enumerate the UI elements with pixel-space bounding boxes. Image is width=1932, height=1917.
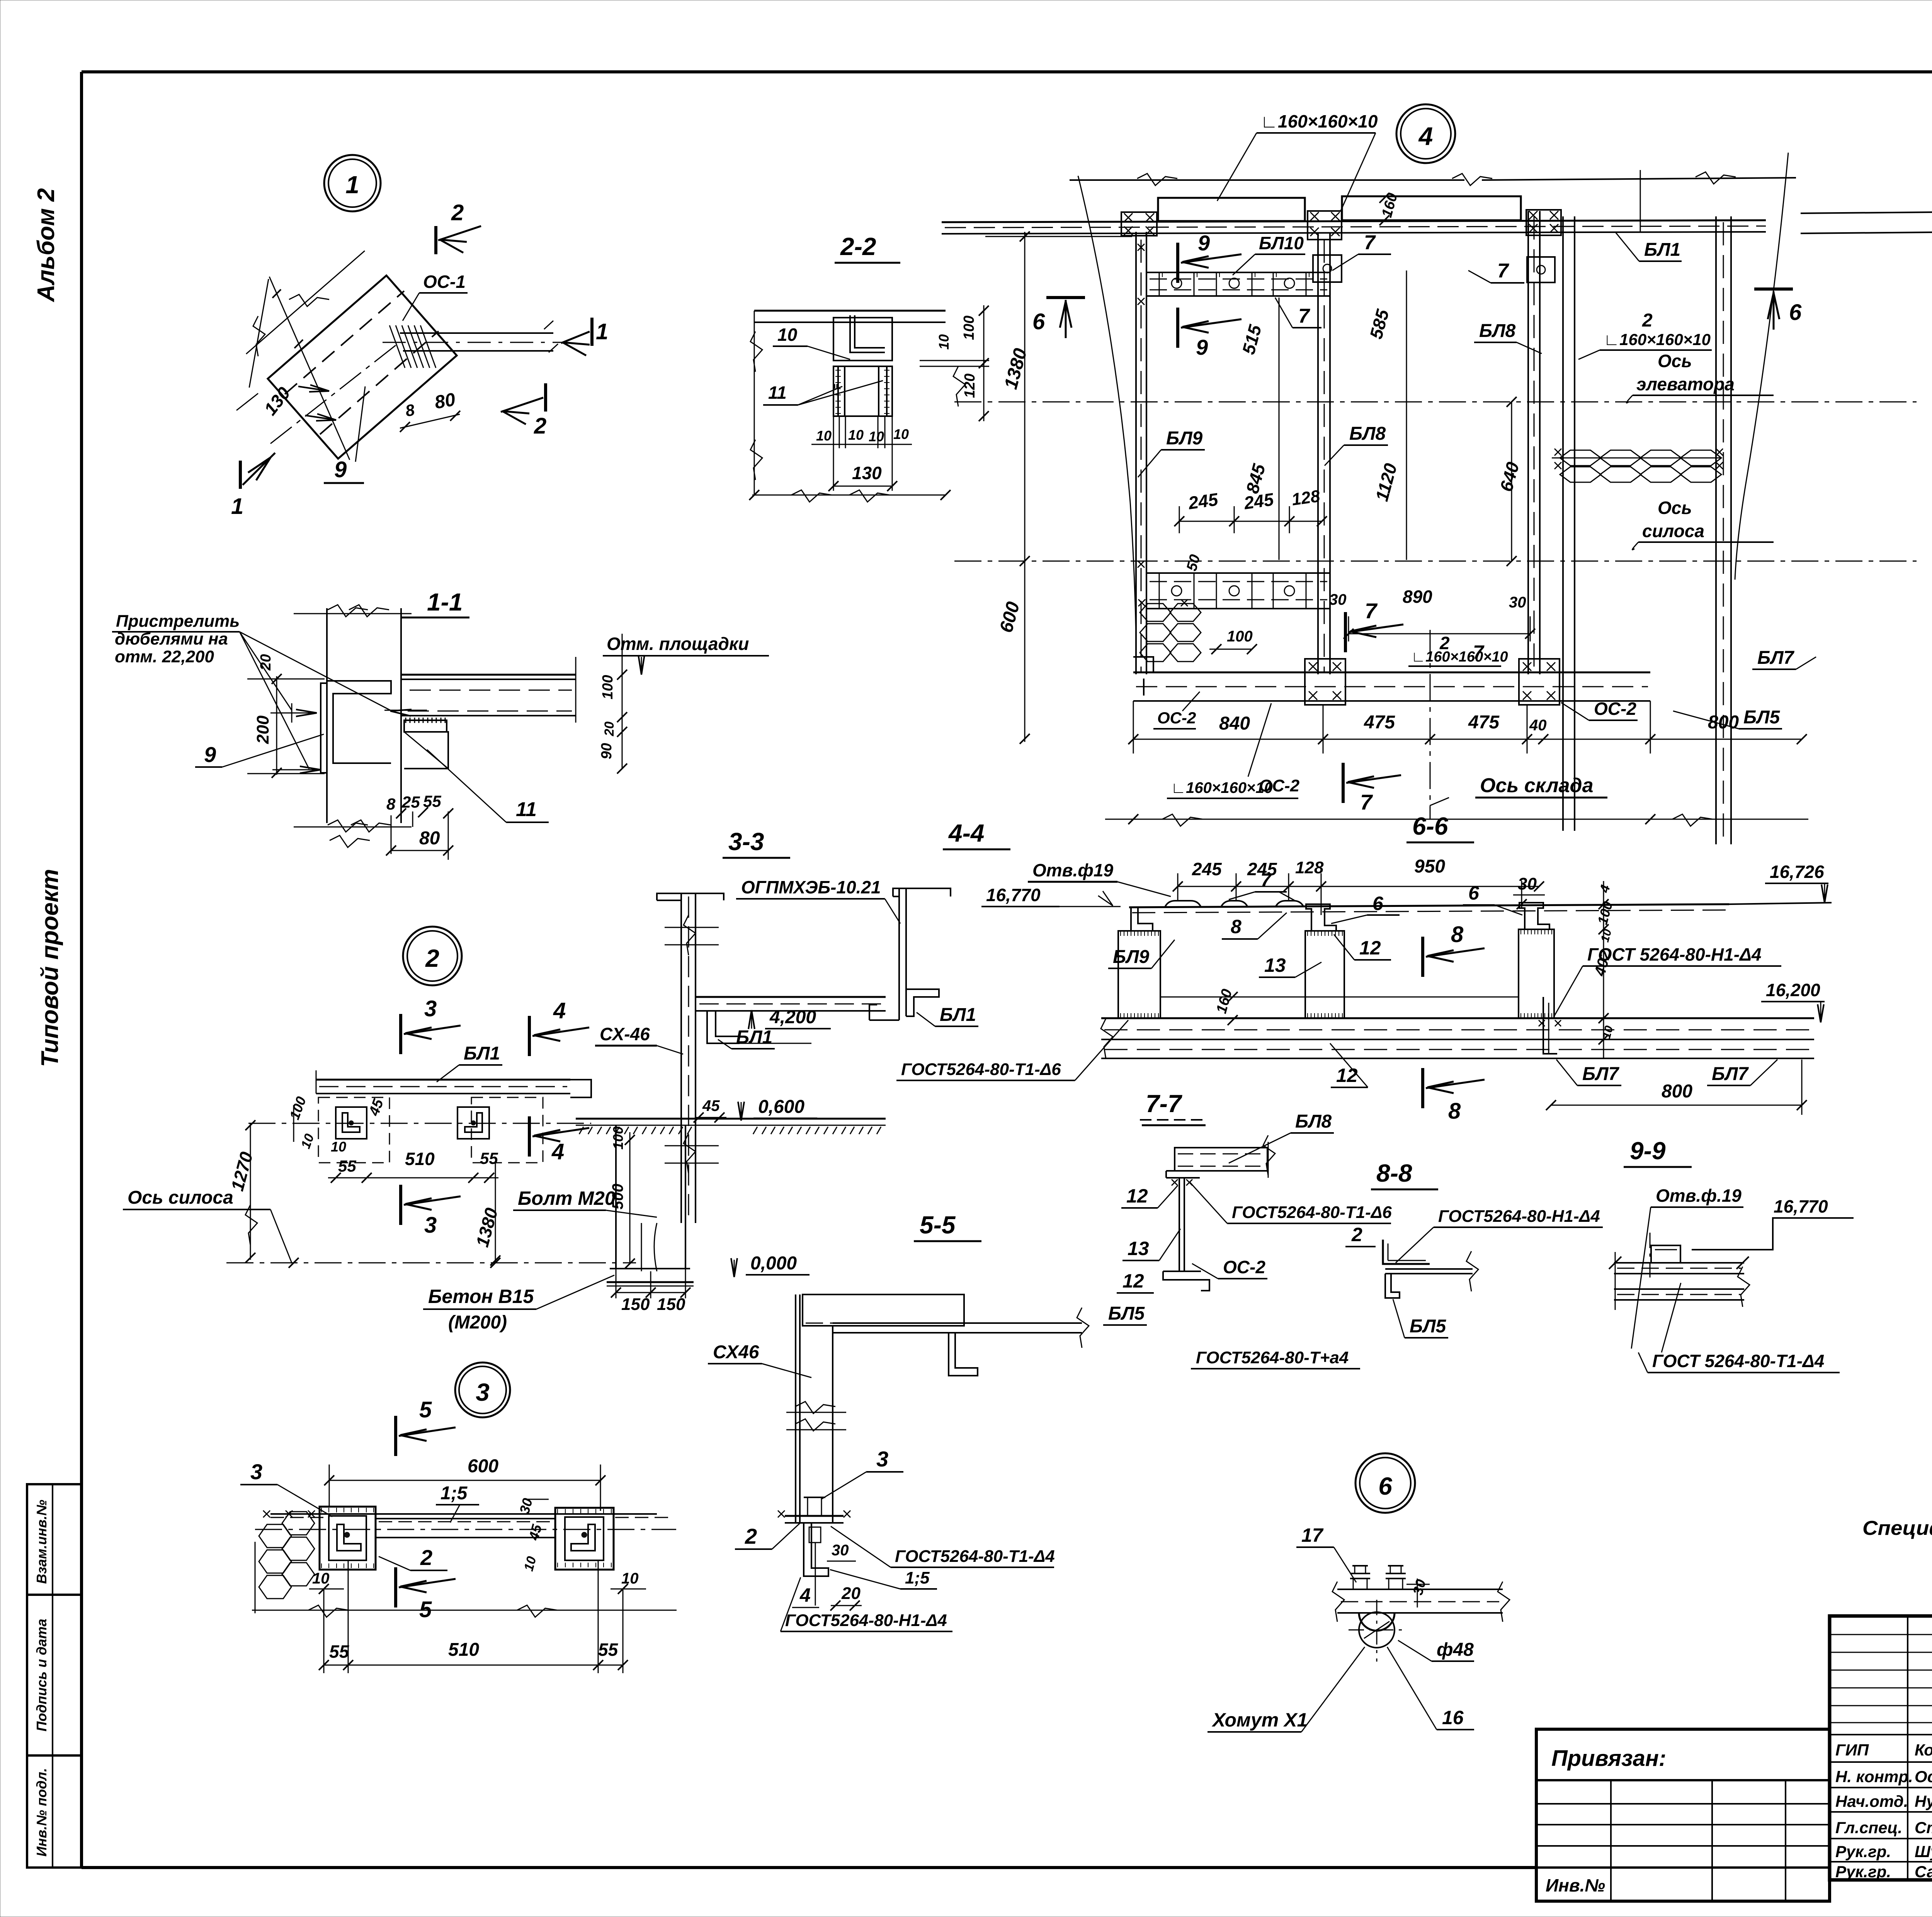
svg-text:150: 150 — [621, 1295, 650, 1314]
svg-text:Спецификацию на БЛ1...БЛ12,О: Спецификацию на БЛ1...БЛ12,ОС-1,ОС-2,Р4,… — [1862, 1517, 1932, 1539]
detail 4 weld boxes top — [1121, 212, 1157, 236]
svg-text:3: 3 — [424, 996, 437, 1021]
svg-text:45: 45 — [702, 1097, 720, 1114]
svg-text:Рук.гр.: Рук.гр. — [1835, 1842, 1891, 1861]
svg-text:БЛ9: БЛ9 — [1166, 428, 1203, 449]
svg-text:100: 100 — [1227, 628, 1253, 645]
svg-text:9: 9 — [334, 457, 347, 482]
svg-text:10: 10 — [621, 1570, 639, 1587]
left margin column boxes — [27, 1484, 82, 1868]
detail 3 long bottom line — [252, 1610, 677, 1611]
svg-text:90: 90 — [599, 743, 615, 759]
svg-text:1-1: 1-1 — [427, 588, 463, 616]
svg-text:55: 55 — [329, 1641, 350, 1662]
svg-text:Привязан:: Привязан: — [1551, 1746, 1666, 1771]
svg-text:128: 128 — [1291, 486, 1321, 509]
svg-text:Типовой проект: Типовой проект — [37, 869, 63, 1067]
svg-text:ГОСТ5264-80-Т1-Δ6: ГОСТ5264-80-Т1-Δ6 — [901, 1060, 1061, 1079]
detail circle 6 — [1355, 1453, 1415, 1513]
detail 3 beam between plates — [376, 1518, 555, 1519]
title block upper thin rows — [1830, 1634, 1932, 1635]
section 6-6 lower band — [1101, 1017, 1814, 1019]
svg-text:Коган: Коган — [1915, 1741, 1932, 1759]
section 6-6 dim 800 — [1551, 1105, 1802, 1106]
section 6-6 right column — [1519, 929, 1554, 1018]
section 6-6 section 8 mark bottom — [1421, 1068, 1424, 1108]
svg-text:1: 1 — [231, 494, 243, 519]
svg-text:ГОСТ5264-80-Т1-Δ6: ГОСТ5264-80-Т1-Δ6 — [1232, 1203, 1392, 1222]
detail 3 section 5 mark bottom — [394, 1567, 397, 1607]
svg-text:7: 7 — [1365, 599, 1378, 623]
svg-text:ГОСТ 5264-80-Т1-Δ4: ГОСТ 5264-80-Т1-Δ4 — [1652, 1351, 1824, 1371]
svg-text:4: 4 — [1418, 122, 1433, 150]
svg-text:16,770: 16,770 — [986, 885, 1041, 905]
svg-text:8: 8 — [1451, 922, 1464, 947]
section 1-1 left dims — [276, 676, 277, 775]
section 5-5 channel flange — [949, 1333, 978, 1376]
svg-text:БЛ5: БЛ5 — [1410, 1316, 1447, 1337]
svg-text:8: 8 — [1231, 916, 1242, 937]
svg-text:7: 7 — [1360, 790, 1373, 814]
section 6-6 top beam — [1129, 904, 1729, 907]
detail 6 bolts — [1353, 1579, 1354, 1589]
svg-text:3: 3 — [424, 1213, 437, 1238]
svg-text:10: 10 — [312, 1570, 330, 1587]
svg-text:7: 7 — [1497, 260, 1509, 282]
svg-text:6: 6 — [1468, 882, 1480, 904]
svg-text:11: 11 — [516, 798, 537, 821]
detail 4 top right wall segment — [1801, 211, 1932, 213]
svg-text:500: 500 — [609, 1184, 626, 1209]
detail 6 rail — [1337, 1589, 1503, 1590]
svg-text:7: 7 — [1260, 869, 1272, 891]
section 6-6 channel on right column — [1519, 903, 1549, 929]
section 2-2 bottom dims — [833, 416, 834, 491]
svg-text:16,200: 16,200 — [1766, 980, 1820, 1000]
detail 4 label 9 arrows — [1176, 243, 1179, 283]
svg-text:1;5: 1;5 — [905, 1568, 930, 1587]
detail 4 lower connection band BL10 — [1146, 573, 1330, 609]
detail 3 dim 600 — [329, 1480, 600, 1481]
detail 4 top wall line — [1070, 179, 1464, 181]
detail 2 beam — [316, 1079, 570, 1081]
svg-text:7: 7 — [1298, 305, 1310, 327]
detail 4 lower long line — [1105, 819, 1808, 820]
svg-text:10: 10 — [936, 334, 952, 350]
svg-text:ОГПМХЭБ-10.21: ОГПМХЭБ-10.21 — [741, 877, 881, 897]
svg-text:Нач.отд.: Нач.отд. — [1835, 1792, 1908, 1810]
section 6-6 mid horizontal line — [1160, 997, 1519, 998]
svg-text:12: 12 — [1126, 1185, 1148, 1207]
svg-text:ОС-2: ОС-2 — [1223, 1257, 1265, 1277]
svg-text:130: 130 — [852, 463, 882, 483]
detail 4 top beam band — [942, 220, 1766, 222]
title block signature rows — [1830, 1734, 1932, 1735]
svg-text:4: 4 — [799, 1584, 811, 1606]
section 1-1 channel bracket — [321, 683, 327, 773]
detail 3 right plate — [555, 1508, 614, 1570]
section 6-6 section 8 mark right — [1421, 937, 1424, 977]
svg-text:3: 3 — [476, 1378, 490, 1406]
detail 3 bottom dims 55 510 55 — [324, 1665, 623, 1666]
detail 4 vertical centerline sklad axis — [1430, 630, 1431, 819]
svg-text:40: 40 — [1529, 717, 1547, 734]
section 5-5 column — [795, 1294, 796, 1523]
svg-text:3: 3 — [876, 1447, 888, 1471]
svg-text:6: 6 — [1032, 309, 1045, 334]
detail 4 top plates — [1158, 198, 1305, 221]
svg-text:силоса: силоса — [1642, 521, 1704, 541]
detail 4 left curved break — [1078, 176, 1136, 641]
svg-text:16,770: 16,770 — [1774, 1196, 1828, 1216]
svg-text:55: 55 — [598, 1640, 619, 1660]
section 3-3 footing — [615, 1125, 617, 1269]
section 3-3 column — [680, 893, 682, 1223]
section 8-8 channel below — [1385, 1274, 1400, 1298]
svg-text:128: 128 — [1295, 858, 1324, 877]
svg-text:2: 2 — [1642, 310, 1653, 331]
svg-text:Степанов: Степанов — [1915, 1818, 1932, 1837]
svg-text:1;5: 1;5 — [440, 1483, 468, 1504]
svg-text:13: 13 — [1128, 1238, 1149, 1259]
svg-text:245: 245 — [1187, 489, 1220, 514]
detail 2 bottom centerline — [226, 1262, 636, 1264]
svg-text:10: 10 — [848, 427, 864, 443]
svg-text:6: 6 — [1372, 893, 1384, 914]
svg-text:ГОСТ5264-80-Т1-Δ4: ГОСТ5264-80-Т1-Δ4 — [895, 1547, 1055, 1566]
detail circle 4 — [1396, 104, 1455, 163]
svg-text:Отв.ф19: Отв.ф19 — [1032, 860, 1114, 880]
detail 1 dim extension lines — [236, 393, 258, 410]
svg-text:25: 25 — [401, 793, 420, 811]
svg-text:8: 8 — [1448, 1099, 1461, 1124]
detail 4 bottom beam band OC-2 — [1133, 672, 1650, 674]
svg-text:3: 3 — [250, 1459, 262, 1484]
svg-text:100: 100 — [961, 316, 977, 340]
svg-text:2: 2 — [451, 200, 464, 225]
detail 1 section mark 1 left — [239, 461, 242, 489]
detail 1 outer parallel line — [246, 251, 365, 354]
section 7-7 shelf — [1166, 1170, 1267, 1172]
svg-text:Хомут Х1: Хомут Х1 — [1211, 1709, 1308, 1731]
svg-text:6: 6 — [1789, 300, 1802, 325]
svg-text:4,200: 4,200 — [769, 1007, 816, 1027]
svg-text:2: 2 — [1351, 1224, 1362, 1245]
svg-text:∟160×160×10: ∟160×160×10 — [1604, 330, 1711, 349]
detail 3 left plate — [320, 1507, 376, 1570]
svg-text:Подпись и дата: Подпись и дата — [34, 1619, 49, 1732]
svg-text:2: 2 — [745, 1524, 757, 1548]
detail 1 plate (rotated) — [268, 276, 457, 459]
section 6-6 left bracket БЛ9 — [1131, 907, 1153, 931]
section 7-7 base — [1163, 1271, 1201, 1272]
svg-text:840: 840 — [1219, 713, 1250, 734]
svg-text:7-7: 7-7 — [1146, 1090, 1183, 1118]
section 6-6 channel on middle column — [1306, 904, 1336, 931]
svg-text:2: 2 — [420, 1545, 432, 1570]
section 6-6 washer bumps — [1165, 901, 1201, 907]
section 3-3 dims 100/500 — [629, 1132, 631, 1264]
detail 6 U clamp with pipe — [1359, 1612, 1395, 1648]
svg-text:17: 17 — [1301, 1524, 1324, 1546]
svg-text:950: 950 — [1414, 856, 1445, 877]
svg-text:Гл.спец.: Гл.спец. — [1835, 1818, 1902, 1837]
svg-text:ГОСТ5264-80-Т+а4: ГОСТ5264-80-Т+а4 — [1196, 1348, 1349, 1367]
detail 1 weld arrows — [298, 386, 329, 391]
svg-text:ГОСТ5264-80-Н1-Δ4: ГОСТ5264-80-Н1-Δ4 — [1438, 1207, 1600, 1226]
section 3-3 foundation — [576, 1118, 886, 1120]
svg-text:7: 7 — [1364, 231, 1376, 254]
detail circle 1 — [324, 155, 381, 211]
svg-text:БЛ7: БЛ7 — [1757, 648, 1795, 668]
svg-text:5-5: 5-5 — [920, 1211, 956, 1239]
svg-text:БЛ8: БЛ8 — [1349, 424, 1386, 444]
svg-text:245: 245 — [1192, 859, 1222, 879]
svg-text:∟160×160×10: ∟160×160×10 — [1260, 111, 1378, 131]
svg-text:600: 600 — [468, 1456, 498, 1476]
section 3-3 dim 150 150 — [616, 1292, 685, 1293]
svg-text:12: 12 — [1122, 1270, 1144, 1292]
svg-text:∟160×160×10: ∟160×160×10 — [1171, 779, 1273, 796]
detail 4 section 6 marks — [1046, 296, 1085, 299]
svg-text:4: 4 — [553, 998, 566, 1023]
title block vertical dividers — [1907, 1616, 1908, 1880]
svg-text:Отм. площадки: Отм. площадки — [607, 634, 749, 654]
detail 4 column BL8 right — [1527, 211, 1529, 674]
title block left sub-table — [1536, 1779, 1830, 1781]
svg-text:5: 5 — [419, 1397, 432, 1422]
detail 2 section 3 mark top — [399, 1014, 402, 1054]
sheet frame bottom — [82, 1866, 1536, 1869]
detail 1 section mark 1 right — [590, 318, 594, 346]
section 6-6 left column — [1118, 931, 1160, 1018]
section 5-5 top box — [803, 1294, 964, 1326]
svg-text:9: 9 — [204, 742, 216, 767]
svg-text:0,000: 0,000 — [750, 1253, 797, 1274]
svg-text:510: 510 — [405, 1149, 435, 1169]
detail 2 section 4 mark right — [528, 1116, 531, 1157]
svg-text:150: 150 — [657, 1295, 685, 1314]
detail 1 section mark 2 top — [434, 226, 437, 254]
svg-text:9: 9 — [1198, 231, 1210, 255]
svg-text:СХ46: СХ46 — [713, 1342, 759, 1362]
detail 4 column BL9 left — [1135, 232, 1137, 674]
svg-text:БЛ8: БЛ8 — [1479, 321, 1516, 341]
svg-text:16,726: 16,726 — [1770, 862, 1824, 882]
detail 4 left honeycomb cluster — [1140, 604, 1171, 621]
svg-text:БЛ1: БЛ1 — [1644, 240, 1680, 260]
section 2-2 right dims — [920, 360, 989, 361]
svg-text:0,600: 0,600 — [758, 1097, 804, 1117]
svg-text:Сафронова: Сафронова — [1915, 1863, 1932, 1881]
detail circle 2 — [403, 927, 462, 985]
svg-text:БЛ8: БЛ8 — [1295, 1111, 1332, 1132]
svg-text:СХ-46: СХ-46 — [600, 1024, 650, 1044]
svg-text:20: 20 — [602, 721, 617, 737]
svg-text:Осипова: Осипова — [1915, 1767, 1932, 1786]
section 1-1 right dims — [575, 657, 577, 723]
svg-text:элеватора: элеватора — [1636, 374, 1735, 394]
svg-text:16: 16 — [1442, 1707, 1464, 1728]
detail 2 dim 1380 — [495, 1163, 496, 1263]
detail 4 left dim 1380/600 — [1024, 232, 1026, 742]
svg-text:Альбом 2: Альбом 2 — [33, 188, 60, 303]
svg-text:30: 30 — [832, 1542, 849, 1559]
section 2-2 top beam — [754, 310, 946, 312]
svg-text:ОС-2: ОС-2 — [1157, 709, 1196, 727]
detail 4 upper connection band BL10 — [1146, 272, 1330, 296]
svg-text:10: 10 — [331, 1139, 346, 1155]
section 7-7 column below — [1179, 1178, 1180, 1271]
svg-text:2-2: 2-2 — [840, 233, 876, 260]
section 5-5 L bracket below — [804, 1523, 828, 1576]
svg-text:9-9: 9-9 — [1630, 1137, 1666, 1165]
svg-text:БЛ5: БЛ5 — [1743, 707, 1781, 728]
svg-text:8-8: 8-8 — [1376, 1159, 1412, 1187]
section 1-1 column — [326, 608, 328, 823]
svg-text:ОС-1: ОС-1 — [423, 272, 466, 292]
svg-text:20: 20 — [841, 1584, 861, 1603]
sheet frame left — [80, 72, 83, 1868]
svg-text:БЛ10: БЛ10 — [1259, 233, 1304, 253]
detail 2 section 3 mark bottom — [399, 1185, 402, 1225]
svg-text:Болт М20: Болт М20 — [518, 1187, 616, 1209]
svg-text:10: 10 — [777, 325, 798, 345]
svg-text:30: 30 — [1329, 591, 1347, 608]
svg-text:100: 100 — [610, 1126, 626, 1150]
svg-text:80: 80 — [419, 828, 440, 849]
svg-text:Шур: Шур — [1915, 1842, 1932, 1861]
svg-text:Отв.ф.19: Отв.ф.19 — [1656, 1186, 1742, 1206]
svg-text:Ось: Ось — [1658, 498, 1692, 518]
svg-text:200: 200 — [253, 715, 272, 744]
section 1-1 bearing plate — [404, 720, 447, 732]
section 5-5 lower bolt — [809, 1527, 821, 1543]
section 3-3 beam right — [696, 996, 886, 998]
section 9-9 bracket on top — [1651, 1245, 1680, 1263]
svg-text:6-6: 6-6 — [1412, 812, 1448, 840]
svg-text:Инв.№ подл.: Инв.№ подл. — [34, 1768, 49, 1856]
svg-text:2: 2 — [534, 413, 546, 439]
svg-text:800: 800 — [1662, 1081, 1692, 1102]
svg-text:∟160×160×10: ∟160×160×10 — [1411, 649, 1508, 665]
svg-text:475: 475 — [1364, 712, 1395, 733]
svg-text:2: 2 — [425, 944, 439, 972]
section 6-6 dims right 4 100 10 402 10 — [1603, 881, 1604, 1059]
detail 4 bottom dim line 840 475 475 40 800 — [1133, 739, 1802, 740]
svg-text:8: 8 — [386, 795, 396, 813]
detail 4 bottom weld boxes — [1305, 659, 1345, 705]
svg-text:6: 6 — [1378, 1472, 1392, 1500]
section 1-1 angle piece with cross — [404, 732, 448, 769]
svg-text:4: 4 — [551, 1139, 564, 1164]
title block Привязан box — [1536, 1729, 1830, 1901]
detail 4 small boxes mid level — [1313, 255, 1342, 282]
section 1-1 weld arrows — [270, 713, 317, 714]
svg-text:Рук.гр.: Рук.гр. — [1835, 1863, 1891, 1881]
svg-text:30: 30 — [1509, 594, 1526, 611]
svg-text:80: 80 — [433, 389, 457, 413]
detail 4 column BL8 middle — [1317, 233, 1319, 674]
svg-text:55: 55 — [338, 1157, 356, 1175]
section 8-8 angle — [1383, 1240, 1430, 1264]
svg-text:Инв.№: Инв.№ — [1546, 1875, 1605, 1895]
section 5-5 bolt on plate — [808, 1497, 821, 1516]
svg-text:800: 800 — [1708, 712, 1739, 733]
svg-text:7: 7 — [1473, 641, 1485, 663]
detail 2 dashed outline — [318, 1097, 543, 1163]
detail 4 column pair at BL1 junction — [1562, 216, 1564, 831]
detail 1 weld hatch at joint — [389, 325, 405, 368]
section 1-1 platform beam — [401, 674, 576, 676]
detail 4 centerline elevator axis — [954, 401, 1917, 403]
detail 2 dim 1270 — [250, 1123, 251, 1260]
svg-text:890: 890 — [1403, 587, 1432, 607]
detail 3 honeycomb — [259, 1524, 291, 1548]
svg-text:Пристрелить: Пристрелить — [116, 612, 240, 631]
svg-text:БЛ5: БЛ5 — [1108, 1303, 1145, 1324]
svg-text:ГОСТ5264-80-Н1-Δ4: ГОСТ5264-80-Н1-Δ4 — [785, 1611, 947, 1630]
detail circle 3 — [455, 1362, 510, 1417]
svg-text:ОС-2: ОС-2 — [1594, 699, 1636, 719]
detail 2 section 4 mark top — [528, 1016, 531, 1056]
section 5-5 base plate — [785, 1515, 844, 1517]
svg-text:Бетон В15: Бетон В15 — [428, 1286, 534, 1307]
detail 4 right curved break (mid) — [1735, 153, 1788, 580]
svg-text:(М200): (М200) — [448, 1312, 507, 1333]
svg-text:5: 5 — [419, 1597, 432, 1622]
detail 1 beam — [400, 332, 553, 334]
svg-text:30: 30 — [1518, 874, 1537, 893]
svg-text:ГИП: ГИП — [1835, 1741, 1869, 1759]
svg-text:9: 9 — [1196, 335, 1208, 359]
svg-text:4-4: 4-4 — [948, 819, 985, 847]
svg-text:3-3: 3-3 — [728, 828, 764, 856]
svg-text:БЛ1: БЛ1 — [736, 1027, 772, 1048]
detail 1 axis dash-dot — [270, 342, 400, 444]
svg-text:10: 10 — [893, 426, 909, 442]
section 2-2 left break — [750, 332, 762, 372]
svg-text:510: 510 — [448, 1640, 479, 1660]
svg-text:100: 100 — [600, 675, 616, 699]
section 2-2 channel box — [833, 318, 892, 361]
svg-text:БЛ1: БЛ1 — [940, 1005, 976, 1025]
detail 3 section 5 mark top — [394, 1416, 397, 1456]
detail 2 plates with anchors — [336, 1107, 367, 1139]
svg-text:ф48: ф48 — [1437, 1640, 1474, 1660]
svg-text:ОС-2: ОС-2 — [1259, 776, 1300, 795]
section 9-9 beam — [1614, 1262, 1744, 1264]
svg-text:1: 1 — [345, 171, 359, 199]
detail 1 dim 130 — [269, 277, 350, 460]
svg-text:Н. контр.: Н. контр. — [1835, 1767, 1913, 1786]
svg-text:10: 10 — [869, 429, 884, 444]
svg-text:11: 11 — [768, 383, 787, 403]
svg-text:Нуриджанов: Нуриджанов — [1915, 1792, 1932, 1810]
detail 4 vertical thin dim lines — [1279, 298, 1280, 560]
svg-text:12: 12 — [1336, 1065, 1358, 1086]
svg-text:20: 20 — [258, 654, 274, 671]
section 6-6 top dims 245 245 128 950 — [1178, 886, 1539, 887]
svg-text:Ось: Ось — [1658, 351, 1692, 371]
section 6-6 middle column — [1305, 931, 1344, 1018]
svg-text:Взам.инв.№: Взам.инв.№ — [34, 1500, 49, 1584]
detail 1 section mark 2 bottom — [544, 383, 547, 412]
svg-text:БЛ7: БЛ7 — [1582, 1064, 1620, 1084]
detail 4 centerline silo axis — [954, 561, 1917, 562]
detail 4 right honeycomb chain — [1560, 450, 1601, 466]
section 2-2 bottom long dim — [752, 495, 946, 496]
